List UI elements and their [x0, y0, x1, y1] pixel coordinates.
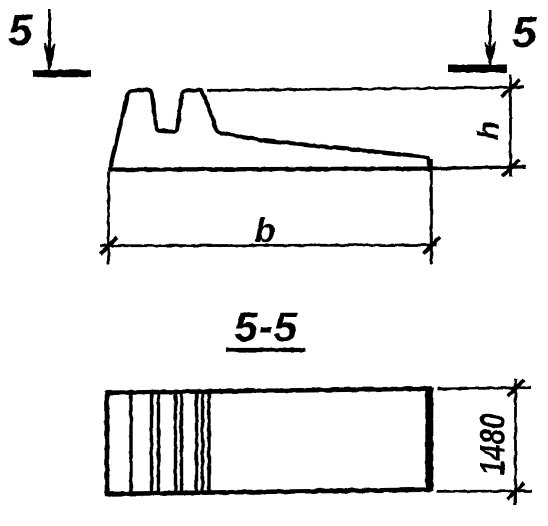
plan rectangle top edge: [105, 389, 431, 393]
top extension line to h dimension: [207, 87, 524, 90]
h dimension tick top: [502, 80, 520, 97]
lamination line 2: [150, 392, 153, 493]
lamination line 4: [174, 392, 177, 493]
b dimension tick left: [101, 238, 118, 255]
svg-text:5: 5: [8, 6, 33, 55]
bottom extension line to h dimension: [436, 167, 526, 169]
b extension line right: [430, 159, 433, 264]
profile outline: [110, 90, 429, 170]
svg-text:h: h: [471, 121, 506, 140]
svg-text:b: b: [255, 212, 276, 250]
lamination line 7: [201, 392, 204, 493]
1480 extension line bottom: [437, 490, 532, 493]
1480 dimension line: [514, 379, 517, 505]
1480 dimension tick top: [508, 380, 525, 397]
b dimension line: [100, 244, 437, 248]
section cut bar left: [33, 70, 91, 78]
section arrow left: [45, 9, 55, 70]
lamination line 1: [129, 392, 132, 493]
plan rectangle right edge: [425, 388, 433, 492]
lamination line 6: [195, 392, 198, 493]
lamination line 5: [180, 392, 183, 493]
plan rectangle bottom edge: [105, 490, 431, 494]
svg-text:5-5: 5-5: [234, 303, 298, 350]
b extension line left: [107, 171, 110, 264]
h dimension tick bottom: [502, 160, 520, 177]
1480 dimension tick bottom: [508, 483, 525, 500]
section arrow right: [485, 10, 495, 67]
lamination line 8: [207, 392, 210, 493]
section title underline: [226, 348, 305, 352]
lamination line 3: [157, 392, 160, 493]
plan rectangle left edge: [105, 391, 110, 496]
h dimension line: [509, 75, 512, 178]
1480 extension line top: [437, 388, 531, 389]
profile bottom line: [109, 169, 437, 170]
section cut bar right: [448, 65, 507, 73]
svg-text:5: 5: [512, 8, 537, 57]
svg-text:1480: 1480: [474, 413, 513, 475]
b dimension tick right: [424, 237, 441, 254]
